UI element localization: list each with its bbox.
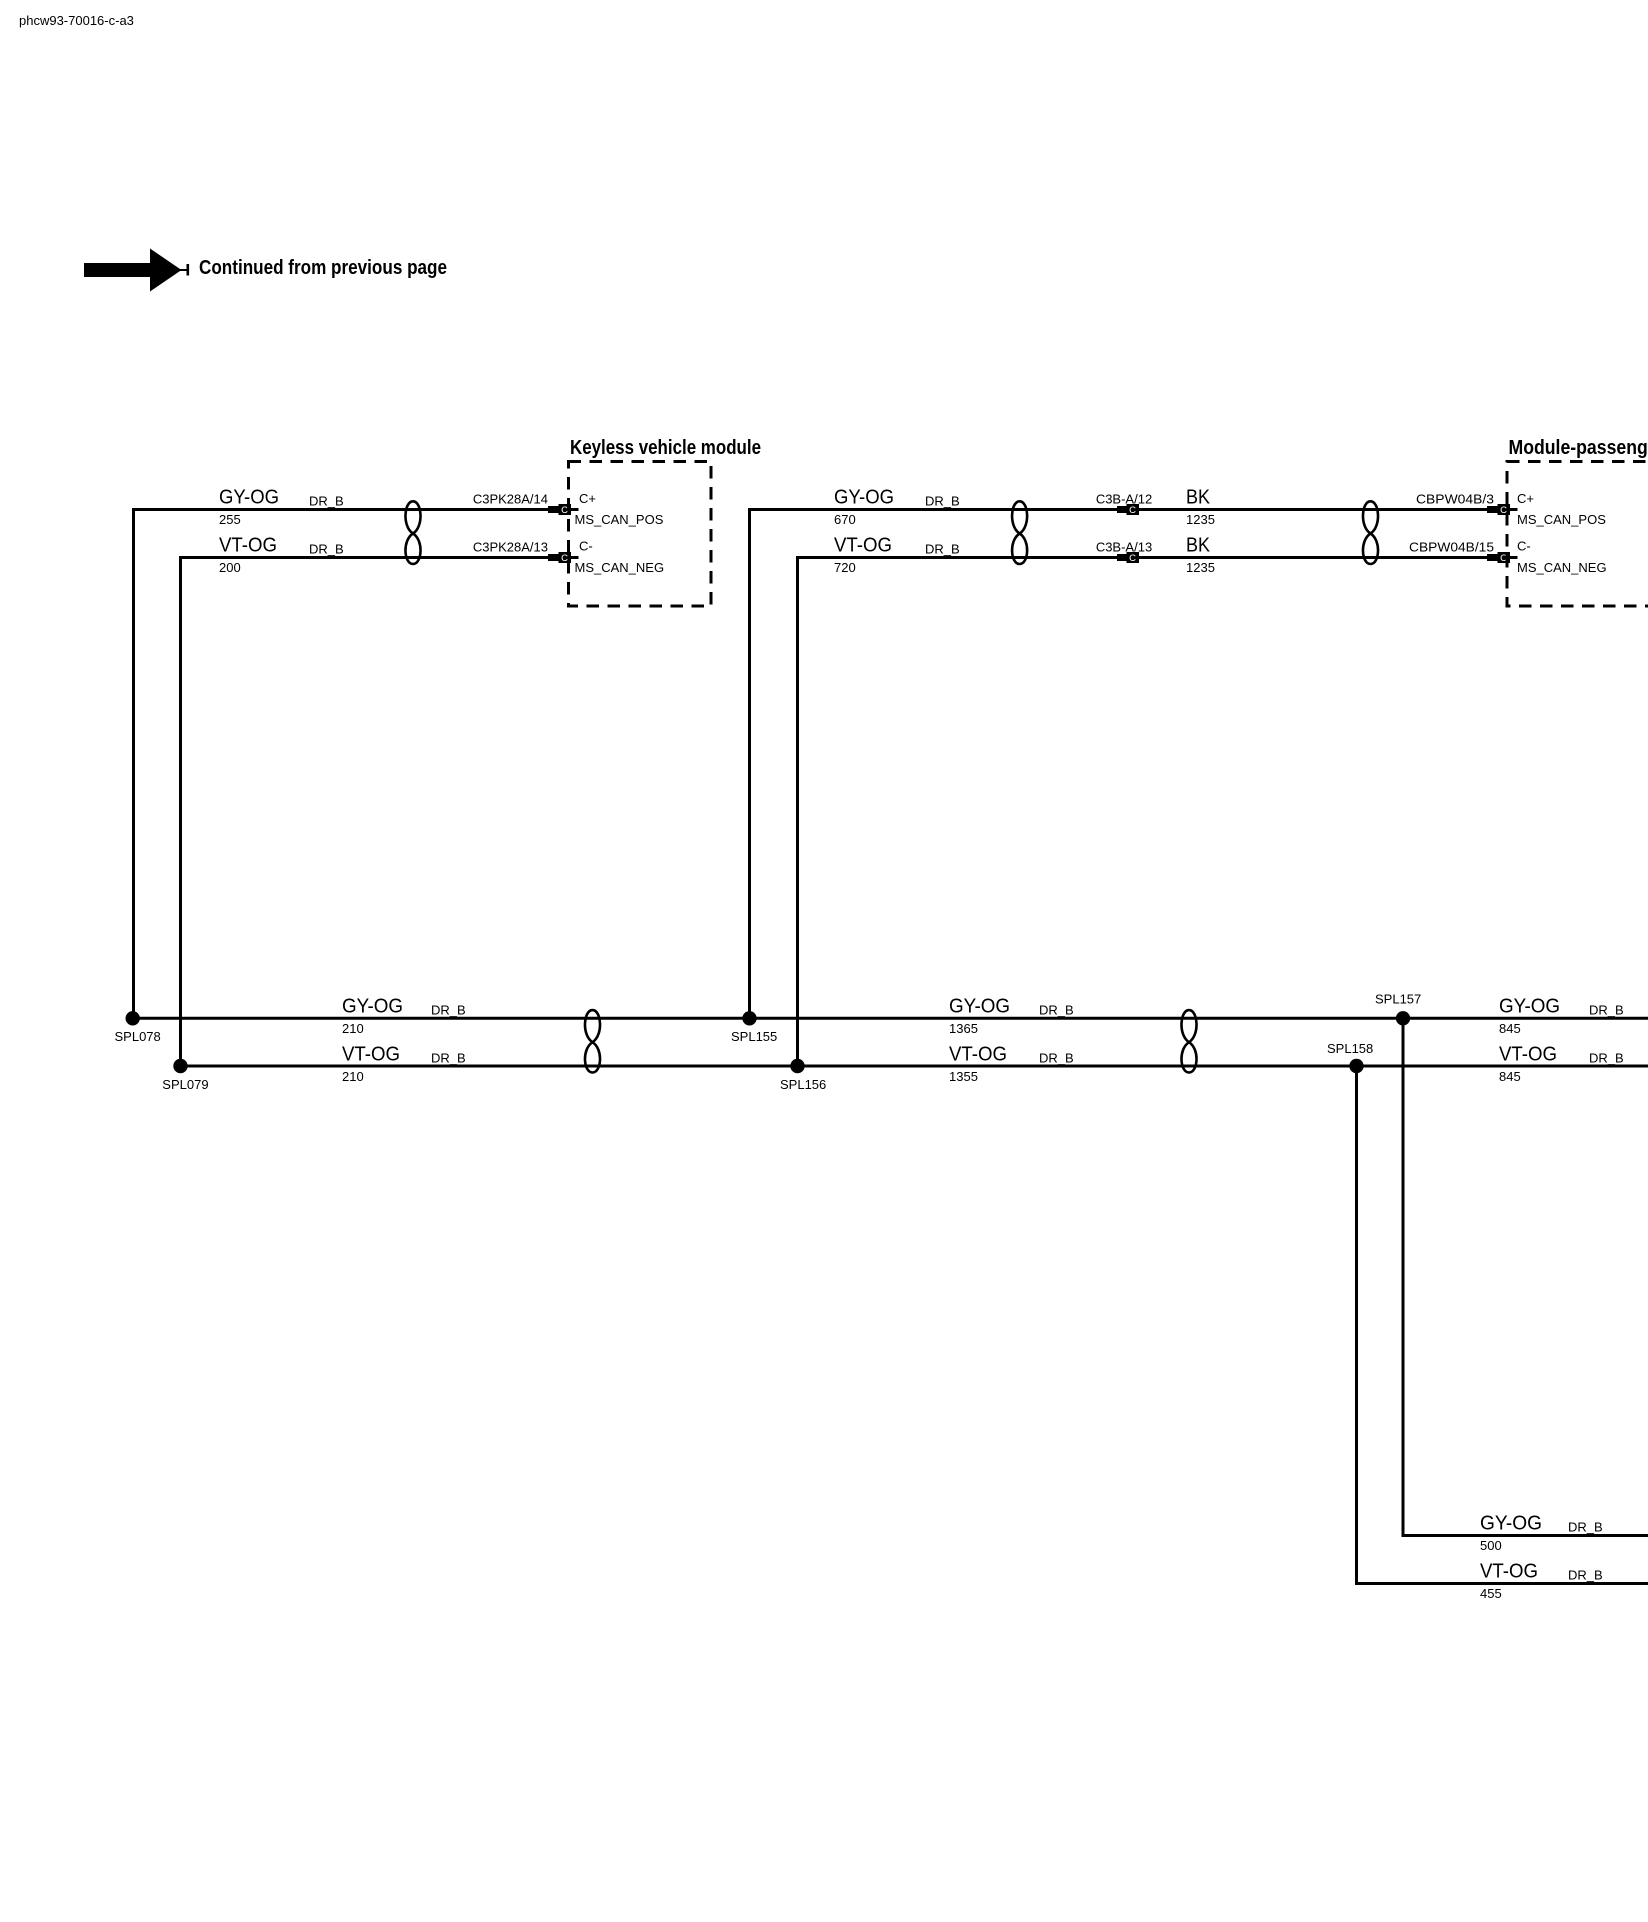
svg-text:210: 210 — [342, 1069, 364, 1084]
twisted pair symbol circuit2 left — [1012, 501, 1027, 564]
svg-text:MS_CAN_NEG: MS_CAN_NEG — [1517, 560, 1607, 575]
svg-text:C+: C+ — [1517, 491, 1534, 506]
svg-text:1355: 1355 — [949, 1069, 978, 1084]
svg-text:phcw93-70016-c-a3: phcw93-70016-c-a3 — [19, 13, 134, 28]
wire VT-OG 455 from SPL158 (vertical down + horizontal right) — [1357, 1066, 1648, 1584]
svg-text:DR_B: DR_B — [1039, 1051, 1074, 1066]
bus wire VT-OG (horizontal) — [181, 1065, 1648, 1068]
svg-text:GY-OG: GY-OG — [219, 487, 279, 509]
svg-text:DR_B: DR_B — [925, 494, 960, 509]
svg-text:455: 455 — [1480, 1586, 1502, 1601]
svg-text:DR_B: DR_B — [1568, 1520, 1603, 1535]
wire GY-OG 670 circuit2 (vertical from SPL155 + horizontal) — [750, 510, 1488, 1019]
svg-text:C3B-A/13: C3B-A/13 — [1096, 540, 1152, 555]
svg-text:C-: C- — [1517, 539, 1531, 554]
svg-text:210: 210 — [342, 1021, 364, 1036]
svg-text:C3PK28A/13: C3PK28A/13 — [473, 540, 548, 555]
svg-text:720: 720 — [834, 560, 856, 575]
svg-text:DR_B: DR_B — [431, 1051, 466, 1066]
wire GY-OG 500 from SPL157 (vertical down + horizontal right) — [1403, 1018, 1648, 1535]
svg-text:GY-OG: GY-OG — [949, 996, 1010, 1018]
twisted pair symbol circuit1 — [405, 501, 420, 564]
svg-text:C3PK28A/14: C3PK28A/14 — [473, 492, 548, 507]
svg-text:GY-OG: GY-OG — [834, 487, 894, 509]
splice SPL079 — [173, 1059, 187, 1073]
svg-text:MS_CAN_POS: MS_CAN_POS — [575, 512, 664, 527]
splice SPL158 — [1349, 1059, 1363, 1073]
svg-text:255: 255 — [219, 512, 241, 527]
svg-text:DR_B: DR_B — [1568, 1568, 1603, 1583]
svg-text:C: C — [1129, 553, 1136, 564]
svg-text:500: 500 — [1480, 1538, 1502, 1553]
svg-text:845: 845 — [1499, 1069, 1521, 1084]
svg-text:VT-OG: VT-OG — [949, 1044, 1007, 1066]
wire VT-OG 720 circuit2 (vertical from SPL156 + horizontal) — [798, 558, 1488, 1067]
bus wire GY-OG (horizontal) — [133, 1017, 1648, 1020]
connector pin C3PK28A/13 — [548, 552, 579, 564]
svg-text:VT-OG: VT-OG — [1499, 1044, 1557, 1066]
svg-text:BK: BK — [1186, 487, 1210, 509]
svg-text:CBPW04B/15: CBPW04B/15 — [1409, 540, 1494, 555]
svg-text:SPL155: SPL155 — [731, 1029, 777, 1044]
svg-text:GY-OG: GY-OG — [1499, 996, 1560, 1018]
svg-text:VT-OG: VT-OG — [219, 535, 277, 557]
svg-text:1235: 1235 — [1186, 512, 1215, 527]
svg-text:GY-OG: GY-OG — [342, 996, 403, 1018]
svg-text:DR_B: DR_B — [431, 1003, 466, 1018]
svg-text:SPL079: SPL079 — [162, 1077, 208, 1092]
svg-text:MS_CAN_NEG: MS_CAN_NEG — [575, 560, 665, 575]
connector pin CBPW04B/3 — [1487, 504, 1518, 516]
svg-text:SPL156: SPL156 — [780, 1077, 826, 1092]
svg-text:200: 200 — [219, 560, 241, 575]
svg-text:VT-OG: VT-OG — [1480, 1561, 1538, 1583]
svg-text:DR_B: DR_B — [1039, 1003, 1074, 1018]
wire GY-OG 255 circuit1 (horizontal + vertical down to SPL078) — [134, 510, 549, 1019]
svg-text:DR_B: DR_B — [925, 542, 960, 557]
svg-text:DR_B: DR_B — [309, 542, 344, 557]
inline connector C3B-A/13 — [1117, 552, 1139, 564]
svg-text:DR_B: DR_B — [309, 494, 344, 509]
svg-text:Module-passenger door: Module-passenger door — [1509, 437, 1648, 459]
splice SPL155 — [742, 1011, 756, 1025]
svg-text:1365: 1365 — [949, 1021, 978, 1036]
inline connector C3B-A/12 — [1117, 504, 1139, 516]
module box Module-passenger door (dashed, clipped at right edge) — [1507, 462, 1648, 607]
svg-text:Continued from previous page: Continued from previous page — [199, 257, 447, 279]
svg-text:C3B-A/12: C3B-A/12 — [1096, 492, 1152, 507]
splice SPL156 — [790, 1059, 804, 1073]
svg-text:1235: 1235 — [1186, 560, 1215, 575]
svg-text:MS_CAN_POS: MS_CAN_POS — [1517, 512, 1606, 527]
svg-text:GY-OG: GY-OG — [1480, 1513, 1542, 1535]
svg-text:C-: C- — [579, 539, 593, 554]
connector pin C3PK28A/14 — [548, 504, 579, 516]
twisted pair symbol bus left — [585, 1010, 600, 1072]
svg-text:VT-OG: VT-OG — [342, 1044, 400, 1066]
svg-text:DR_B: DR_B — [1589, 1051, 1624, 1066]
twisted pair symbol circuit2 right — [1363, 501, 1378, 564]
continuation arrow — [84, 249, 189, 292]
svg-text:Keyless vehicle module: Keyless vehicle module — [570, 437, 761, 459]
svg-text:845: 845 — [1499, 1021, 1521, 1036]
splice SPL157 — [1396, 1011, 1410, 1025]
svg-text:C: C — [1129, 505, 1136, 516]
svg-text:SPL157: SPL157 — [1375, 992, 1421, 1007]
svg-text:SPL158: SPL158 — [1327, 1041, 1373, 1056]
svg-text:670: 670 — [834, 512, 856, 527]
svg-text:DR_B: DR_B — [1589, 1003, 1624, 1018]
module box Keyless vehicle module (dashed) — [569, 462, 712, 607]
connector pin CBPW04B/15 — [1487, 552, 1518, 564]
twisted pair symbol bus right — [1181, 1010, 1196, 1072]
splice SPL078 — [126, 1011, 140, 1025]
module title: Module-passenger door — [1509, 437, 1648, 459]
wire VT-OG 200 circuit1 (horizontal + vertical down to SPL079) — [181, 558, 549, 1067]
svg-text:C+: C+ — [579, 491, 596, 506]
svg-text:CBPW04B/3: CBPW04B/3 — [1416, 492, 1494, 507]
svg-text:VT-OG: VT-OG — [834, 535, 892, 557]
svg-text:SPL078: SPL078 — [115, 1029, 161, 1044]
svg-text:BK: BK — [1186, 535, 1210, 557]
